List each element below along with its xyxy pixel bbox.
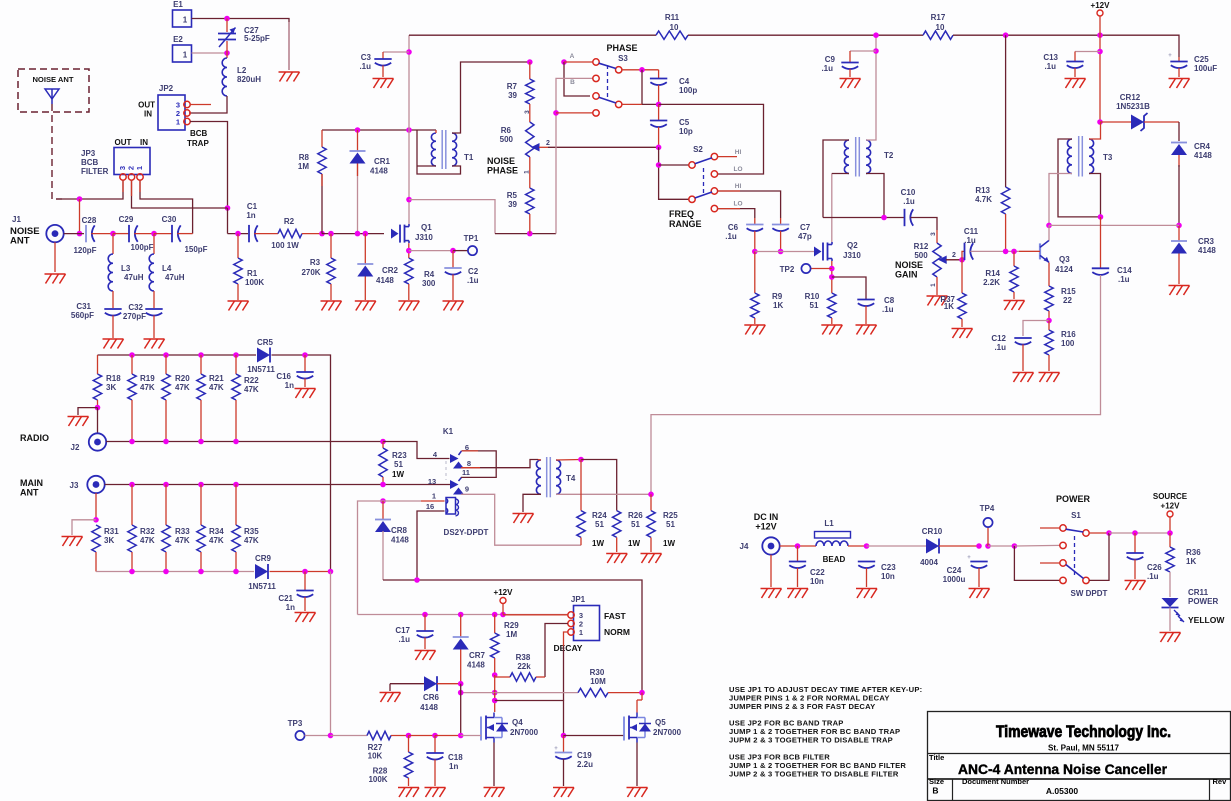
wire C14 down long bbox=[651, 275, 1101, 494]
label TP2 bbox=[780, 265, 795, 274]
junction C9 tap bbox=[873, 48, 879, 54]
title address bbox=[1048, 744, 1120, 753]
label R34 value bbox=[209, 536, 224, 545]
ground C19 bbox=[553, 788, 574, 798]
junction C8 branch bbox=[829, 274, 835, 280]
label R38 bbox=[516, 653, 531, 662]
terminal +12V top bbox=[1097, 10, 1103, 35]
svg-text:CR2: CR2 bbox=[382, 266, 399, 275]
resistor R16 100 bbox=[1045, 321, 1053, 372]
svg-text:1: 1 bbox=[183, 16, 188, 25]
svg-text:1K: 1K bbox=[944, 302, 954, 311]
svg-text:NOISE ANT: NOISE ANT bbox=[32, 75, 73, 84]
label CR12 value bbox=[1116, 102, 1150, 111]
junction R5 bottom bbox=[527, 231, 533, 237]
label C24 value bbox=[943, 575, 966, 584]
svg-text:NOISE: NOISE bbox=[487, 156, 515, 166]
svg-text:R6: R6 bbox=[501, 126, 512, 135]
label R37 bbox=[940, 295, 955, 304]
junction wiper/C11/R37 bbox=[959, 257, 965, 263]
label R4 value bbox=[422, 279, 436, 288]
label C6 bbox=[728, 223, 739, 232]
wire S1 out row bbox=[1109, 532, 1170, 534]
resistor R15 22 bbox=[1045, 286, 1053, 321]
label R13 value bbox=[975, 195, 992, 204]
svg-text:R20: R20 bbox=[175, 374, 190, 383]
junction C17 top bbox=[422, 612, 428, 618]
svg-text:CR11: CR11 bbox=[1188, 588, 1209, 597]
label R33 value bbox=[175, 536, 190, 545]
ground R9 bbox=[744, 325, 765, 335]
svg-text:.1u: .1u bbox=[467, 276, 479, 285]
label C17 value bbox=[398, 635, 410, 644]
switch S1 POWER bbox=[1060, 525, 1089, 584]
junction rail/+12V bbox=[1097, 32, 1103, 38]
label C7 bbox=[800, 223, 811, 232]
svg-text:R25: R25 bbox=[663, 511, 678, 520]
svg-text:Title: Title bbox=[929, 753, 944, 762]
svg-text:C5: C5 bbox=[679, 118, 690, 127]
svg-text:+12V: +12V bbox=[755, 522, 776, 532]
label CR1 value bbox=[370, 167, 388, 176]
label R4 bbox=[424, 270, 435, 279]
junction CR2 top bbox=[363, 231, 369, 237]
ground R3 bbox=[321, 301, 342, 311]
junction rail/T2 bbox=[873, 32, 879, 38]
svg-text:POWER: POWER bbox=[1056, 494, 1091, 504]
svg-text:A: A bbox=[570, 53, 575, 60]
junction C3/top rail bbox=[406, 127, 412, 133]
svg-text:C11: C11 bbox=[964, 227, 979, 236]
resistor R21 47K bbox=[197, 355, 205, 442]
wire throw1 to C4 bbox=[622, 69, 659, 71]
resistor R35 47K bbox=[232, 485, 240, 572]
label C16 bbox=[276, 372, 291, 381]
svg-text:47K: 47K bbox=[175, 383, 190, 392]
ground CR6 bbox=[380, 693, 401, 703]
label C9 bbox=[825, 55, 836, 64]
label TRAP bbox=[187, 139, 209, 148]
svg-text:E2: E2 bbox=[173, 35, 183, 44]
test point TP3 bbox=[295, 731, 304, 740]
junction T4/R25 bbox=[648, 492, 654, 498]
wire JP1 pin1 down dark bbox=[563, 646, 565, 701]
svg-text:FILTER: FILTER bbox=[81, 167, 109, 176]
label R21 value bbox=[209, 383, 224, 392]
resistor R20 47K bbox=[162, 355, 170, 442]
svg-text:22k: 22k bbox=[517, 662, 531, 671]
svg-text:10: 10 bbox=[936, 23, 945, 32]
wire rail right bbox=[953, 35, 1179, 57]
wire pin8 to T4 bbox=[461, 460, 538, 468]
label R16 bbox=[1061, 330, 1076, 339]
junction R35 bottom bbox=[233, 569, 239, 575]
svg-text:R8: R8 bbox=[299, 153, 310, 162]
svg-text:47K: 47K bbox=[244, 536, 259, 545]
svg-text:1: 1 bbox=[135, 166, 144, 170]
svg-text:L3: L3 bbox=[121, 264, 131, 273]
junction JP3.2/JP2.1 net bbox=[225, 205, 231, 211]
wire R8 bottom stub bbox=[321, 174, 323, 186]
label R17 bbox=[931, 13, 946, 22]
label C3 value bbox=[359, 62, 371, 71]
svg-text:C8: C8 bbox=[884, 296, 895, 305]
wire C3 tap bbox=[383, 51, 409, 53]
wire C19 top lead bbox=[563, 736, 565, 753]
svg-text:CR7: CR7 bbox=[469, 651, 486, 660]
svg-text:C21: C21 bbox=[278, 594, 293, 603]
label S2 bbox=[693, 145, 703, 154]
wire C13 tap bbox=[1075, 51, 1100, 53]
ground J3 branch bbox=[62, 537, 83, 547]
label K1 pin9 bbox=[465, 485, 469, 494]
wire Q1 drain net bbox=[408, 130, 410, 225]
transistor Q5 2N7000 bbox=[624, 713, 651, 743]
label J2 bbox=[71, 443, 80, 452]
wire R27 to C18 bbox=[409, 735, 436, 737]
label R27 value bbox=[368, 752, 383, 761]
label R28 value bbox=[368, 775, 387, 784]
ground R37 bbox=[952, 329, 973, 339]
junction +12V mid bbox=[500, 612, 506, 618]
svg-text:10: 10 bbox=[670, 23, 679, 32]
svg-text:500: 500 bbox=[914, 251, 928, 260]
label +12V top bbox=[1091, 1, 1111, 10]
svg-text:10n: 10n bbox=[881, 572, 895, 581]
svg-text:11: 11 bbox=[462, 468, 470, 477]
label R11 bbox=[665, 13, 680, 22]
wire LO2 stub red bbox=[718, 208, 740, 210]
svg-text:100p: 100p bbox=[679, 86, 697, 95]
svg-text:L1: L1 bbox=[824, 519, 834, 528]
label C27 value bbox=[244, 34, 270, 43]
resistor R28 100K bbox=[404, 736, 412, 787]
svg-text:R23: R23 bbox=[392, 451, 407, 460]
svg-text:4148: 4148 bbox=[1198, 246, 1216, 255]
wire R18 gnd branch bbox=[78, 408, 98, 415]
pin 1 marker R6 bbox=[524, 157, 531, 188]
terminal SOURCE +12V bbox=[1167, 511, 1173, 533]
svg-text:C14: C14 bbox=[1117, 266, 1132, 275]
svg-text:J3: J3 bbox=[70, 481, 79, 490]
wire combiner to CR3 bbox=[1049, 224, 1179, 226]
svg-text:S3: S3 bbox=[618, 54, 628, 63]
junction C26 top bbox=[1132, 530, 1138, 536]
label DC IN bbox=[754, 512, 779, 522]
junction R29/R38 bbox=[492, 672, 498, 678]
svg-text:150pF: 150pF bbox=[184, 245, 207, 254]
ground feed CR6 bbox=[390, 684, 424, 691]
label R34 bbox=[209, 527, 224, 536]
svg-text:St. Paul, MN 55117: St. Paul, MN 55117 bbox=[1048, 744, 1120, 753]
label R35 bbox=[244, 527, 259, 536]
junction gate row/CR7 bbox=[458, 733, 464, 739]
label C13 bbox=[1043, 53, 1058, 62]
svg-text:R21: R21 bbox=[209, 374, 224, 383]
svg-text:.1u: .1u bbox=[725, 232, 737, 241]
label R30 bbox=[590, 668, 605, 677]
junction S1 out bbox=[1106, 530, 1112, 536]
label CR10 bbox=[922, 527, 943, 536]
wire R18 to J2 bbox=[97, 408, 99, 433]
svg-text:R26: R26 bbox=[628, 511, 643, 520]
label R15 value bbox=[1063, 296, 1072, 305]
wire LED gnd bbox=[1169, 608, 1171, 632]
capacitor C18 1n bbox=[426, 736, 443, 787]
capacitor C30 150pF bbox=[154, 225, 193, 242]
wire R6 wiper to C5 node bbox=[548, 146, 659, 148]
junction E2/C27/L2 bbox=[224, 50, 230, 56]
label C31 bbox=[76, 302, 91, 311]
svg-text:2: 2 bbox=[546, 140, 550, 147]
label R6 bbox=[501, 126, 512, 135]
wire JP1 pin2 to R38 bbox=[545, 624, 568, 678]
label R7 value bbox=[508, 91, 517, 100]
label L4 bbox=[162, 264, 172, 273]
connector J4 DC IN bbox=[762, 537, 779, 554]
label CR5 bbox=[257, 338, 274, 347]
wire J1 to C28 bbox=[64, 233, 84, 235]
label C16 value bbox=[285, 381, 294, 390]
wire CR7 node down to gate row bbox=[460, 684, 462, 736]
svg-text:R36: R36 bbox=[1186, 548, 1201, 557]
label C25 value bbox=[1194, 64, 1217, 73]
svg-text:PHASE: PHASE bbox=[487, 166, 518, 176]
ground R12 bbox=[927, 296, 948, 306]
svg-text:Q4: Q4 bbox=[512, 718, 523, 727]
label R25 value bbox=[666, 520, 675, 529]
label C11 value bbox=[964, 236, 976, 245]
junction coil/CR8 bbox=[380, 498, 386, 504]
wire C12 branch bbox=[1023, 321, 1049, 337]
wire JP2 pin1 down long bbox=[190, 122, 228, 209]
svg-text:C3: C3 bbox=[361, 53, 372, 62]
label PHASE bbox=[606, 43, 637, 53]
svg-text:9: 9 bbox=[465, 485, 469, 494]
capacitor C2 .1u bbox=[444, 251, 461, 300]
wire S1 pole3 stub bbox=[1040, 562, 1060, 564]
junction C29/L4 bbox=[151, 231, 157, 237]
label R20 value bbox=[175, 383, 190, 392]
wire S1 pole1 stub bbox=[1040, 527, 1060, 529]
svg-text:ANC-4 Antenna Noise Canceller: ANC-4 Antenna Noise Canceller bbox=[958, 761, 1168, 777]
svg-text:4148: 4148 bbox=[376, 276, 394, 285]
label C30 bbox=[162, 215, 177, 224]
ground C3 bbox=[373, 79, 394, 89]
label R19 value bbox=[140, 383, 155, 392]
label LO 1 bbox=[733, 166, 742, 173]
svg-text:Q5: Q5 bbox=[655, 718, 666, 727]
svg-text:2.2u: 2.2u bbox=[577, 760, 593, 769]
wire L2 to JP2 pin2 bbox=[189, 96, 227, 113]
svg-text:TP2: TP2 bbox=[780, 265, 795, 274]
ground CR11 bbox=[1160, 633, 1181, 643]
wire TP1 stub bbox=[453, 250, 468, 252]
resistor R1 100K bbox=[234, 234, 242, 300]
label JP3 bbox=[81, 149, 96, 158]
svg-text:100 1W: 100 1W bbox=[271, 241, 299, 250]
ground C26 bbox=[1125, 581, 1146, 591]
svg-text:C30: C30 bbox=[162, 215, 177, 224]
label R23 1W bbox=[392, 470, 404, 479]
svg-text:1W: 1W bbox=[392, 470, 404, 479]
wire pin6 link bbox=[461, 451, 496, 478]
svg-text:NORM: NORM bbox=[604, 627, 630, 637]
label R10 value bbox=[810, 301, 819, 310]
label R23 value bbox=[394, 460, 403, 469]
resistor R25 51 1W bbox=[647, 494, 655, 552]
label C25 bbox=[1194, 55, 1209, 64]
transformer T1 bbox=[431, 130, 456, 169]
wire to CR10 bbox=[867, 545, 927, 547]
label C3 bbox=[361, 53, 372, 62]
label R16 value bbox=[1061, 339, 1075, 348]
svg-text:C19: C19 bbox=[577, 751, 592, 760]
label NOISE GAIN 1 bbox=[895, 260, 923, 270]
svg-text:Q3: Q3 bbox=[1059, 255, 1070, 264]
wire Q3 collector up bbox=[1048, 225, 1050, 240]
svg-text:1: 1 bbox=[579, 628, 583, 637]
label C26 value bbox=[1147, 572, 1159, 581]
junction C16 top bbox=[302, 352, 308, 358]
transistor Q3 4124 bbox=[1019, 240, 1049, 262]
svg-text:1N5711: 1N5711 bbox=[248, 582, 276, 591]
potentiometer R6 500 bbox=[526, 122, 548, 157]
transformer T3 bbox=[1067, 136, 1093, 177]
ground C9 bbox=[840, 79, 861, 89]
label CR2 value bbox=[376, 276, 394, 285]
label C28 bbox=[82, 216, 97, 225]
label DECAY bbox=[554, 643, 583, 653]
junction R23 bottom bbox=[380, 482, 386, 488]
label L1 bbox=[824, 519, 834, 528]
junction pole1 branch bbox=[656, 162, 662, 168]
label NOISE bbox=[10, 226, 40, 237]
wire rail R11-R17 bbox=[688, 34, 923, 36]
svg-text:4004: 4004 bbox=[920, 558, 938, 567]
wire R13 drop bbox=[1005, 35, 1007, 187]
resistor R34 47K bbox=[197, 485, 205, 572]
svg-text:TP3: TP3 bbox=[288, 719, 303, 728]
wire pin8 red bbox=[461, 467, 480, 469]
svg-text:R19: R19 bbox=[140, 374, 155, 383]
label C4 value bbox=[679, 86, 697, 95]
svg-text:51: 51 bbox=[595, 520, 604, 529]
wire top rail horizontal bbox=[409, 34, 656, 36]
junction CR4/CR3 mid bbox=[1176, 223, 1182, 229]
label R28 bbox=[373, 767, 388, 776]
svg-text:JUMPER PINS 2 & 3 FOR FAST DEC: JUMPER PINS 2 & 3 FOR FAST DECAY bbox=[729, 702, 875, 711]
svg-text:JP1: JP1 bbox=[571, 595, 586, 604]
label R13 bbox=[975, 186, 990, 195]
label C14 value bbox=[1118, 275, 1130, 284]
svg-text:10p: 10p bbox=[679, 127, 693, 136]
svg-text:1N5711: 1N5711 bbox=[247, 365, 275, 374]
label C32 bbox=[128, 303, 143, 312]
title label Document Number bbox=[962, 777, 1029, 786]
svg-text:1000u: 1000u bbox=[943, 575, 966, 584]
svg-text:R31: R31 bbox=[104, 527, 119, 536]
label CR6 value bbox=[420, 703, 438, 712]
label R30 value bbox=[590, 677, 606, 686]
label R32 bbox=[140, 527, 155, 536]
junction CR12/T3 bbox=[1097, 119, 1103, 125]
label R1 bbox=[247, 269, 258, 278]
wire antenna drop bbox=[79, 199, 81, 234]
svg-text:51: 51 bbox=[666, 520, 675, 529]
label C8 value bbox=[882, 305, 894, 314]
label R27 bbox=[368, 743, 383, 752]
label R18 bbox=[106, 374, 121, 383]
svg-text:S1: S1 bbox=[1071, 511, 1081, 520]
svg-text:CR10: CR10 bbox=[922, 527, 943, 536]
label CR11 bbox=[1188, 588, 1209, 597]
wire T1 left U bbox=[417, 130, 461, 174]
label Q5 value bbox=[653, 728, 682, 737]
label R14 value bbox=[983, 278, 1000, 287]
label Q5 bbox=[655, 718, 666, 727]
svg-text:R24: R24 bbox=[592, 511, 607, 520]
svg-text:C17: C17 bbox=[395, 626, 410, 635]
label C18 value bbox=[449, 762, 458, 771]
label ANT bbox=[20, 488, 39, 498]
wire Q4 drain net bbox=[494, 693, 496, 712]
label B bbox=[570, 79, 575, 86]
label R36 value bbox=[1186, 557, 1196, 566]
wire Q5 drain up bbox=[636, 700, 638, 713]
wire T3 bottom-right bbox=[1089, 174, 1101, 217]
wire R29 node down bbox=[494, 675, 496, 701]
resistor R30 10M bbox=[578, 688, 642, 696]
ground R28 bbox=[398, 788, 419, 798]
junction R33 bottom bbox=[163, 569, 169, 575]
svg-text:R35: R35 bbox=[244, 527, 259, 536]
label BCB bbox=[190, 129, 208, 138]
ground Q4 bbox=[484, 788, 505, 798]
capacitor C27 5-25pF trimmer bbox=[218, 19, 236, 54]
wire T4 sec top bbox=[556, 459, 581, 462]
svg-text:J310: J310 bbox=[843, 251, 861, 260]
label J1 bbox=[12, 215, 21, 224]
svg-text:2N7000: 2N7000 bbox=[653, 728, 682, 737]
junction T3/C14 bbox=[1098, 214, 1104, 220]
svg-text:1W: 1W bbox=[663, 539, 675, 548]
svg-text:100K: 100K bbox=[245, 278, 264, 287]
label C4 bbox=[679, 77, 690, 86]
wire TP3 to R27 bbox=[331, 735, 368, 737]
junction rail/R13 bbox=[1003, 32, 1009, 38]
svg-text:T3: T3 bbox=[1103, 153, 1113, 162]
wire T1 left coil bottom bbox=[417, 165, 436, 167]
resistor R13 4.7K bbox=[1001, 187, 1009, 251]
label K1 pin16 bbox=[426, 502, 434, 511]
noise antenna dashed box bbox=[18, 69, 89, 112]
wire JP2 pin3 stub bbox=[190, 104, 211, 106]
label R21 bbox=[209, 374, 224, 383]
wire y130 bias rail bbox=[322, 129, 436, 131]
svg-text:C9: C9 bbox=[825, 55, 836, 64]
label K1 pin1 bbox=[432, 492, 436, 501]
wire C4 node to S2 HI-LO bbox=[659, 104, 764, 174]
label JP3 FILTER bbox=[81, 167, 109, 176]
ground R1 bbox=[228, 301, 249, 311]
label C2 value bbox=[467, 276, 479, 285]
resistor R33 47K bbox=[162, 485, 170, 572]
label R3 bbox=[310, 258, 321, 267]
ground C23 bbox=[856, 589, 877, 599]
label C29 bbox=[119, 215, 134, 224]
wire J4 out bbox=[780, 545, 816, 547]
